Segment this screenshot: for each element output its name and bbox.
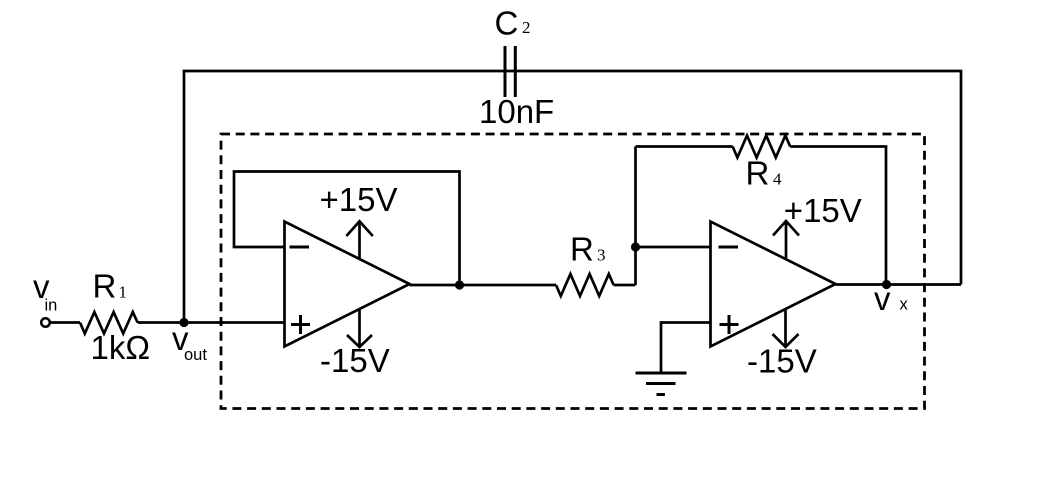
label R1 (93, 268, 128, 305)
wire: U1 - input feedback loop to output node (234, 172, 460, 286)
svg-text:1: 1 (119, 283, 128, 302)
label R3 (570, 231, 606, 268)
wire: U1 output to R3 (410, 284, 557, 287)
svg-text:2: 2 (522, 18, 531, 37)
op-amp U1 (285, 222, 410, 347)
wire: U2 output to v_x and C2 riser (836, 283, 962, 286)
svg-text:+15V: +15V (320, 181, 398, 218)
label C2 (495, 5, 531, 42)
wire: R1 to op-amp U1 + input (through node v_out) (138, 321, 285, 324)
wire: U2 + input to ground (661, 323, 711, 374)
+15V supply arrow U2 (773, 221, 799, 259)
node: U2 inverting input (631, 242, 640, 251)
wire: v_in terminal to R1 (50, 321, 80, 324)
dashed box (filter block) (221, 134, 925, 409)
input terminal v_in (41, 318, 50, 327)
label v_out (172, 320, 207, 364)
op-amp U2 (711, 222, 836, 347)
-15V supply arrow U1 (347, 309, 372, 347)
wire: R3 to U2 - input riser (614, 284, 636, 287)
op-amp U2 plus marking (720, 315, 739, 334)
resistor R4 with feedback wires (636, 145, 733, 148)
op-amp U1 minus marking (290, 246, 310, 249)
svg-text:1kΩ: 1kΩ (91, 329, 151, 366)
capacitor C2 (505, 46, 515, 97)
node: U1 output (455, 280, 464, 289)
svg-text:in: in (45, 297, 58, 315)
resistor R3 (556, 274, 614, 296)
svg-text:R: R (570, 231, 594, 268)
svg-text:+15V: +15V (784, 192, 862, 229)
svg-text:x: x (900, 296, 909, 314)
op-amp U2 minus marking (719, 246, 739, 249)
+15V supply arrow U1 (346, 221, 372, 259)
svg-text:4: 4 (773, 170, 782, 189)
ground (636, 373, 687, 395)
svg-text:-15V: -15V (747, 343, 817, 380)
label v_in (33, 268, 57, 315)
label R4 (746, 155, 783, 192)
-15V supply arrow U2 (773, 309, 799, 347)
svg-text:R: R (746, 155, 770, 192)
svg-text:3: 3 (597, 246, 606, 265)
resistor R1 (80, 312, 138, 334)
svg-text:-15V: -15V (320, 342, 390, 379)
op-amp U1 plus marking (291, 315, 310, 334)
svg-text:10nF: 10nF (479, 93, 554, 130)
node v_out (179, 318, 188, 327)
svg-text:out: out (184, 346, 207, 364)
svg-text:v: v (874, 280, 891, 317)
svg-text:R: R (93, 268, 117, 305)
svg-text:C: C (495, 5, 519, 42)
wire: top feedback from v_out riser to v_x riser (184, 71, 961, 323)
label v_x (874, 280, 909, 317)
node v_x (882, 280, 891, 289)
